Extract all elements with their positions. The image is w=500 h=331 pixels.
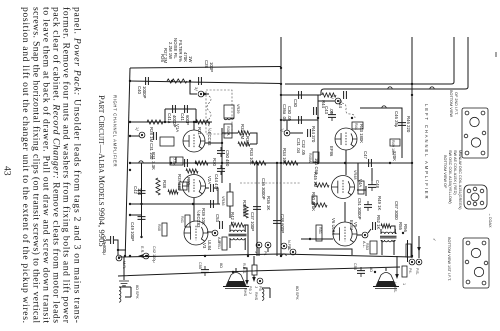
capacitor C57 [154,132,157,140]
wire drop 7k5 [175,157,177,163]
capacitor C49 [138,217,146,220]
boxed label R44b [352,122,363,129]
svg-text:600P: 600P [185,115,190,125]
dashed coupling box [206,90,232,134]
junction dot 5 [280,162,282,164]
svg-text:screws. Snap the horizontal f: screws. Snap the horizontal fixing clips… [31,7,42,323]
svg-text:VR29: VR29 [236,104,240,114]
svg-text:R33 10K: R33 10K [249,148,254,165]
junction dot 25 [232,271,234,273]
svg-text:C48: C48 [375,180,380,188]
resistor R50 [313,203,327,207]
top border wire [130,67,281,69]
svg-text:R33A: R33A [245,136,250,147]
svg-text:SW AE COIL A15X ( RED): SW AE COIL A15X ( RED) [453,150,457,195]
capacitor C47 [369,159,372,167]
capacitor C41a [173,105,176,113]
bus mid y163 [130,162,412,164]
wire ch1 y122 [130,121,212,123]
svg-text:8Ω: 8Ω [369,267,373,272]
resistor R32b [238,142,250,146]
jack P5 [416,259,422,265]
junction dot 11 [411,162,413,164]
junction dot 6 [280,255,282,257]
capacitor C30 [299,91,302,99]
resistor box R40A [313,152,319,162]
svg-text:RHS: RHS [254,292,258,300]
svg-text:7.5K: 7.5K [172,158,176,166]
svg-text:C44 47P: C44 47P [214,174,219,191]
wire x358 drop [357,163,359,181]
svg-text:LEFT CHANNEL AMPLIFIER: LEFT CHANNEL AMPLIFIER [424,104,429,199]
svg-text:R40A: R40A [308,153,312,163]
wire spk bracket left [119,287,131,297]
junction input [129,80,131,82]
capacitor C51 [364,205,372,208]
svg-text:MW&LW OSC COIL A151(GREEN): MW&LW OSC COIL A151(GREEN) [458,150,462,210]
arrow into box [203,92,208,96]
svg-text:RIGHT CHANNEL AMPLIFIER: RIGHT CHANNEL AMPLIFIER [113,95,118,167]
wire V2 anode [193,171,195,174]
capacitor C45 [111,236,114,244]
capacitor C29 [217,169,225,172]
valve base diagram 1 circles [470,117,479,126]
svg-text:OF 2ND I.F.T.: OF 2ND I.F.T. [454,92,458,115]
OPT1 leads [230,225,245,250]
svg-text:R30A: R30A [226,126,230,136]
arrow RHS [245,280,249,285]
resistor box R51 [316,225,322,241]
capacitor C28 [199,77,202,85]
junction dot 9 [411,83,413,85]
HT bus vertical [280,37,282,257]
jack P3a [265,242,271,248]
svg-text:C38 600P: C38 600P [280,214,285,233]
bus bottom [118,267,400,276]
wire vr36 [229,183,231,218]
resistor box R53 [370,241,377,254]
wire y133 join [222,133,257,144]
wire lhs drop [396,256,398,277]
svg-text:R40: R40 [157,224,161,231]
speaker RHS [223,273,249,289]
svg-text:C49 100P: C49 100P [130,222,135,241]
svg-text:8Ω SPK: 8Ω SPK [135,285,139,299]
svg-text:V5: V5 [353,222,358,228]
svg-text:3ƒ: 3ƒ [194,87,198,91]
svg-text:R56: R56 [403,224,408,232]
jack 3F top [198,91,204,97]
svg-text:C55: C55 [198,262,202,269]
arrow P4 [417,247,421,252]
junction dot 13 [256,162,258,164]
resistor R27 [167,79,187,83]
jack 1F [139,132,145,138]
resistor box right [406,244,411,257]
svg-text:RHS: RHS [243,288,247,296]
wire spk2 [385,268,387,271]
valve base diagram 1 box [462,108,488,158]
long vertical wire C [321,37,468,95]
svg-text:✓: ✓ [432,238,436,241]
resistor R42 [231,223,244,227]
junction dot 23 [389,162,391,164]
svg-text:R34 10K: R34 10K [282,148,287,165]
svg-text:P3: P3 [258,286,262,291]
ground left [119,281,129,286]
svg-text:C42 100μ: C42 100μ [152,246,156,263]
svg-text:43: 43 [2,166,13,176]
capacitor C32 [308,129,311,137]
resistor R52 [381,224,391,228]
svg-text:R43 180K: R43 180K [359,124,364,143]
resistor box PS [402,266,407,277]
arrow P3 [252,277,256,282]
svg-text:NOISE FIL: NOISE FIL [173,38,178,59]
svg-text:R.H.S.: R.H.S. [242,263,246,274]
resistor box R40 [162,223,167,236]
svg-text:R49 1K: R49 1K [377,196,382,210]
capacitor C46 [398,123,406,126]
wire tube2 cathode [193,198,195,221]
dashed gang line [240,182,300,184]
svg-text:C47: C47 [363,151,368,159]
junction V1 anode [193,121,195,123]
wire after jack [205,93,209,95]
junction dot 22 [351,117,353,119]
svg-text:8Ω: 8Ω [219,263,223,268]
resistor R44 input [322,93,336,97]
OPT1 secondary coil [230,238,245,240]
svg-text:C50 450: C50 450 [225,150,230,167]
svg-text:P4.: P4. [408,268,412,274]
junction dot 12 [411,255,413,257]
jack ER [143,253,149,259]
svg-text:8Ω SPK: 8Ω SPK [295,286,299,300]
junction x403 [402,232,404,234]
capacitor C45 [328,115,336,118]
resistor box LFB1 [222,237,227,250]
svg-text:BOTTOM VIEW: BOTTOM VIEW [449,90,453,117]
VR29 coil bottom [224,118,234,120]
svg-text:10μ C62: 10μ C62 [314,158,319,175]
wire C45 [106,240,126,250]
resistor box R41 [185,215,190,227]
resistor R28 [147,120,163,124]
wire y204 [130,203,220,205]
svg-text:R36 3K: R36 3K [266,196,271,210]
capacitor on bus [185,159,188,167]
junction hv y95 [280,94,282,96]
OPT2 core [380,236,397,238]
svg-text:R50 470K: R50 470K [311,192,316,211]
wire hop y256 [282,254,286,256]
svg-text:C51 3000P: C51 3000P [357,198,362,220]
junction bus lower left [124,255,126,257]
svg-text:panel. Power Pack: Unsolder: panel. Power Pack: Unsolder leads from t… [72,7,83,323]
capacitor C42 bypass [138,191,146,194]
svg-text:R32 1M: R32 1M [240,124,245,139]
resistor box VR48 [358,181,364,194]
valve base diagram 2 box [464,185,487,209]
valve V6 output [333,222,357,246]
capacitor C56 [357,271,365,274]
junction x222 mid [221,142,223,144]
valve V5 triode [332,176,355,199]
svg-text:C41: C41 [180,113,185,121]
resistor box R50A [312,196,317,204]
junction dot 8 [317,162,319,164]
jack MR [116,255,122,261]
volume control VR29 [224,105,234,118]
svg-text:C87 3000: C87 3000 [394,201,399,220]
wire x277 drop [276,163,278,256]
junction dot 26 [374,271,376,273]
capacitor C38 [273,221,281,224]
junction dot 19 [247,255,249,257]
junction y204 c [129,203,131,205]
svg-text:V2A: V2A [207,176,212,184]
svg-text:C28: C28 [204,60,209,68]
svg-text:1ƒ: 1ƒ [280,128,284,132]
svg-text:C32 .05: C32 .05 [301,140,306,156]
resistor R33 [252,161,266,165]
svg-text:R52 1K: R52 1K [376,215,381,229]
dashed squiggle ch2 [342,103,355,118]
wire v6 under [309,249,352,255]
svg-text:V6 UL84: V6 UL84 [331,218,336,235]
junction dot 18 [344,162,346,164]
capacitor C54 [373,222,376,230]
svg-text:C43: C43 [324,106,329,114]
stray mark top right [495,52,497,57]
wire v6 cathode [344,202,346,222]
resistor box P3 [252,265,257,275]
wire spk right drop [243,268,247,283]
capacitor C59 [211,184,214,192]
wire grid row ch1 [130,81,281,84]
arrow bus lower [138,254,143,258]
valve base diagram 3 box [463,238,489,288]
junction dot 3 [280,67,282,69]
junction dot 21 [195,121,197,123]
wire hop y163 [139,161,143,163]
wire V1 anode up [193,122,195,130]
junction ch2 in [317,117,319,119]
bus lower [118,254,412,257]
svg-text:position and lift out the chan: position and lift out the changer unit t… [20,7,31,323]
svg-text:VR48: VR48 [353,170,357,180]
svg-text:V4A: V4A [358,179,363,187]
wire P4 drop [411,240,413,258]
capacitor C50 [217,151,225,154]
svg-text:L.H.S.: L.H.S. [393,282,397,293]
wire v4 v5 [345,150,347,175]
svg-text:C53: C53 [215,214,220,222]
svg-text:½ECC83: ½ECC83 [196,210,201,228]
OPT1 core [229,234,247,236]
svg-text:C40: C40 [137,86,142,94]
jack P3b [257,278,263,284]
svg-text:R26: R26 [160,54,165,62]
wire anode V3 [207,231,212,233]
wire jack 2F [287,120,303,133]
jack 3F b [335,98,341,104]
capacitor C31 [299,116,302,124]
valve base diagram 2 circles [471,193,479,201]
wire ch2 y120 [281,119,318,121]
svg-text:LFB1: LFB1 [217,240,221,249]
junction y163 v1 [221,162,223,164]
wire drop x190 [190,81,197,94]
svg-text:EF86: EF86 [329,146,334,157]
left border wire [125,68,130,256]
wire MR [117,250,119,255]
svg-text:R51: R51 [318,227,322,234]
OPT2 secondary coil [381,240,395,242]
boxed label R49 [390,139,400,146]
svg-text:220K: 220K [392,151,397,161]
wire jacks down [259,248,268,256]
svg-text:PART CIRCUIT—ALBA MODELS 9904,: PART CIRCUIT—ALBA MODELS 9904, 9905 [97,95,106,247]
wire v2 hook out [205,188,218,204]
svg-text:2.2M 1W: 2.2M 1W [168,42,173,60]
wire ch2 x318 drop [317,95,319,163]
junction v6 grid [309,238,311,240]
svg-text:C41a: C41a [167,113,172,124]
svg-text:470K: 470K [183,52,188,62]
wire 1F feed [130,135,139,137]
svg-text:V1A: V1A [175,124,180,132]
capacitor C58 [211,200,214,208]
wire ch2 jack feed [318,100,335,102]
resistor R45 [315,183,329,187]
boxed label R30A [224,124,232,138]
jack 2F [284,130,290,136]
jack AR [212,230,218,236]
resistor R30b [195,161,208,165]
capacitor C53 [220,221,223,229]
capacitor C44 [344,91,347,99]
resistor R35 [244,205,248,218]
wire bracket mid [262,288,270,298]
svg-text:3ƒ: 3ƒ [330,95,334,99]
junction x141 end [140,236,142,238]
resistor box 7k5 [170,157,183,165]
svg-text:P3 J: P3 J [248,286,252,294]
svg-text:C56: C56 [353,263,357,270]
wire v6 anode [357,229,371,235]
capacitor C41b [185,105,188,113]
jack NFB [281,243,287,249]
junction dot 4 [280,83,282,85]
svg-text:P.S.: P.S. [415,268,419,275]
svg-text:1000P: 1000P [142,86,147,99]
resistor R34 [284,161,298,165]
svg-text:P1: P1 [263,251,267,256]
arrow LHS [395,274,399,279]
svg-text:1: 1 [402,283,406,285]
wire PS drop [418,236,420,258]
capacitor C40 [146,77,149,85]
valve V3 output [184,221,208,245]
junction y122 left [129,121,131,123]
junction dot 1 [129,169,131,171]
capacitor C30c [314,107,317,115]
junction dot 16 [146,255,148,257]
svg-text:EL: EL [287,246,291,251]
capacitor C48 [368,185,376,188]
grid box V1 [160,137,174,146]
svg-text:C30: C30 [293,99,298,107]
resistor R38 [156,178,160,195]
resistor R37 [168,190,178,194]
svg-text:R38: R38 [162,180,167,188]
junction R27 out [189,80,191,82]
long vertical wire B [285,37,454,84]
wire p3 [253,256,255,279]
junction dot 7 [171,80,173,82]
junction y120 hv [280,119,282,121]
junction y204 a [140,203,142,205]
wire x248 drop [244,225,248,256]
wire opt2 top [391,226,395,233]
svg-text:R31 3.3K: R31 3.3K [151,152,156,170]
svg-text:C30 .05: C30 .05 [287,106,292,122]
junction y163 a [170,162,172,164]
OPT1 primary coil [230,230,245,232]
svg-text:.01: .01 [329,108,334,115]
svg-text:V3: V3 [202,243,207,249]
svg-text:C36a .05: C36a .05 [282,104,287,122]
svg-text:C36 3000P: C36 3000P [261,178,266,200]
wire x257 drop [256,163,258,256]
wire v5 couple [357,186,366,196]
svg-text:1W: 1W [188,56,193,63]
valve V1 triode [183,130,205,152]
junction dot 2 [129,255,131,257]
choke bottom mid [262,289,264,300]
gnd drop left [123,257,125,280]
valve V2 triode [183,175,206,198]
junction 1F feed [129,135,131,137]
jack P4 [409,259,415,265]
junction dot 20 [164,121,166,123]
svg-text:BOTTOM VIEW 1ST I.F.T.: BOTTOM VIEW 1ST I.F.T. [447,237,451,281]
wire cathode col [141,163,143,237]
wire spk feed [235,268,237,272]
junction y215 [129,214,131,216]
svg-text:R53: R53 [365,243,369,250]
wire ch2 y108 [360,108,402,158]
wire ch2 input [281,94,321,96]
cap pair rail [165,109,196,122]
OPT2 primary coil [381,232,396,234]
jack EL [290,249,296,255]
junction dot 0 [129,162,131,164]
long vertical wire A [411,37,413,258]
hop ch2 y108 [382,106,386,108]
svg-text:R37 680: R37 680 [177,174,182,191]
wire V1 out [205,128,222,183]
svg-text:BOTTOM VIEW OF: BOTTOM VIEW OF [443,155,447,189]
resistor box mid [179,182,187,190]
junction dot 14 [276,162,278,164]
svg-text:1ƒ: 1ƒ [135,127,139,131]
wire hop y89 a [388,87,392,89]
resistor R30c [186,169,198,173]
junction dot 24 [204,255,206,257]
